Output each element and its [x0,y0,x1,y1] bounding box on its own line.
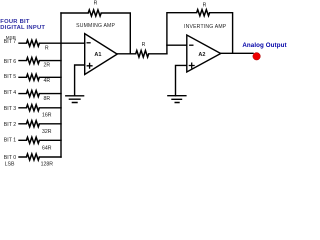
svg-text:4R: 4R [43,78,50,84]
svg-text:BIT 1: BIT 1 [4,138,16,144]
svg-text:8R: 8R [43,96,50,102]
svg-text:R: R [94,0,98,6]
svg-text:A2: A2 [198,52,205,58]
svg-text:Analog Output: Analog Output [242,42,286,49]
svg-text:2R: 2R [43,63,50,69]
svg-text:LSB: LSB [5,161,15,167]
svg-text:A1: A1 [94,52,101,58]
svg-text:SUMMING AMP: SUMMING AMP [76,23,115,29]
svg-text:R: R [142,42,146,48]
svg-text:BIT 6: BIT 6 [4,59,16,65]
svg-text:BIT 2: BIT 2 [4,122,16,128]
svg-text:R: R [203,2,207,8]
svg-text:BIT 7: BIT 7 [4,39,16,45]
svg-text:BIT 5: BIT 5 [4,74,16,80]
svg-text:BIT 0: BIT 0 [4,155,16,161]
svg-text:16R: 16R [42,113,52,119]
svg-text:DIGITAL INPUT: DIGITAL INPUT [0,25,45,31]
svg-text:BIT 3: BIT 3 [4,106,16,112]
svg-text:R: R [45,46,49,52]
svg-text:64R: 64R [42,145,52,151]
svg-text:32R: 32R [42,129,52,135]
svg-text:BIT 4: BIT 4 [4,90,16,96]
svg-text:128R: 128R [41,161,54,167]
svg-text:INVERTING AMP: INVERTING AMP [184,24,227,30]
